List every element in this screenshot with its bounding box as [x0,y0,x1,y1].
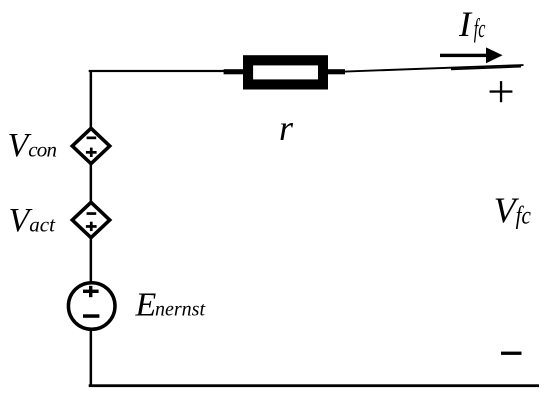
resistor r body [243,55,328,89]
voltage source Enernst [68,283,115,330]
current arrow Ifc [440,47,503,63]
label Vfc [494,190,532,230]
label Enernst [135,286,206,323]
wire top-right overlap segment [451,66,521,70]
Vcon minus polarity mark [87,137,97,140]
dependent source Vact [72,202,109,237]
Vact minus polarity mark [87,212,97,215]
svg-text:r: r [279,108,294,148]
wire left vertical [90,70,93,386]
svg-text:I: I [458,4,473,44]
svg-text:Vcon: Vcon [8,127,57,164]
minus terminal bottom right [501,352,522,355]
Enernst plus polarity mark [83,290,99,293]
wire top-left horizontal [89,70,244,72]
plus terminal top right [490,81,513,102]
Vcon plus polarity mark [86,151,97,154]
resistor r lead stub left [224,69,244,74]
svg-text:E: E [135,286,157,323]
Enernst minus polarity mark [83,314,99,318]
label Ifc [458,4,486,44]
wire bottom horizontal [89,384,539,387]
resistor r lead stub right [328,69,346,74]
svg-text:nernst: nernst [155,299,205,321]
dependent source Vcon [72,128,109,163]
svg-text:fc: fc [474,14,486,43]
svg-text:Vact: Vact [9,202,57,239]
wire top-right sloped [345,64,524,72]
svg-text:fc: fc [516,202,532,230]
Vact plus polarity mark [86,225,97,228]
